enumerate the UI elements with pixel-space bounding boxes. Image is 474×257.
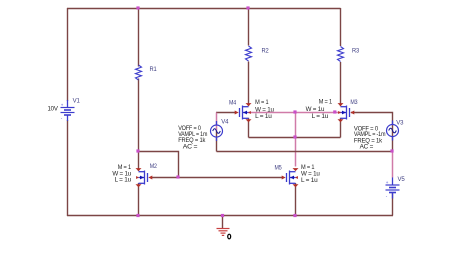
wire bottom rail [67,215,393,217]
params M2 [112,165,131,184]
svg-text:L = 1u: L = 1u [301,178,318,184]
transistor M2 [136,168,153,187]
wire M2 source to rail [138,183,140,216]
svg-text:V3: V3 [396,120,404,126]
svg-text:R1: R1 [150,67,158,73]
resistor R2 [246,46,252,61]
junction source tie tail [293,135,296,138]
wire R2 to M4 drain [248,62,250,107]
wire bulk bus M4-M3 (highlighted) [249,112,341,114]
source V4 [211,121,223,141]
resistor R3 [338,47,344,62]
wire R2 top [248,8,250,46]
svg-text:W = 1u: W = 1u [306,107,325,113]
svg-text:M = 1: M = 1 [301,165,315,171]
wire gate bus M2-M5 [150,177,283,179]
junction gate bus [176,175,179,178]
wire M4 source down [248,118,250,138]
wire R1 to M2 drain [138,79,140,172]
wire M5 source to rail [295,183,297,216]
svg-text:M = 1: M = 1 [118,165,132,171]
wire top rail [67,8,341,10]
svg-text:M2: M2 [150,164,158,170]
svg-text:W = 1u: W = 1u [255,108,274,114]
junction diode tap [136,149,139,152]
svg-text:W = 1u: W = 1u [301,172,320,178]
wire ground stem [222,216,224,229]
wire M2 diode tap [139,152,179,178]
battery V5 [386,177,400,198]
wire source tie row [249,137,341,139]
wire V1 top column [67,8,69,101]
svg-text:L = 1u: L = 1u [115,178,132,184]
transistor M3 [338,103,355,122]
wire V3 to V5 (highlighted) [392,152,394,178]
wire R1 top [138,8,140,67]
transistor M5 [282,168,299,187]
junction top rail R2 [246,6,249,9]
svg-text:R3: R3 [352,49,360,55]
node 0 label [228,234,231,239]
svg-text:10V: 10V [48,107,58,113]
params M3 [306,100,333,120]
ground [217,229,230,236]
svg-text:FREQ = 1k: FREQ = 1k [178,138,206,144]
wire V4 top vertical (highlighted) [216,113,218,132]
svg-text:AC =: AC = [183,145,198,151]
battery V1 [61,100,75,121]
wire source bus V4-V3 [217,151,393,153]
wire V1 bottom column [67,120,69,216]
svg-text:M3: M3 [350,100,358,106]
svg-text:AC =: AC = [360,144,374,150]
wire R3 to M3 drain [340,62,342,106]
svg-text:L = 1u: L = 1u [312,114,329,120]
svg-text:V4: V4 [221,120,229,126]
svg-text:M = 1: M = 1 [319,100,333,106]
wire R3 top [340,8,342,46]
params M4 [255,100,274,120]
wire V3 to M3 gate [351,113,393,152]
wire V5 bottom [392,193,394,216]
junction V3 bottom [390,149,393,152]
svg-text:L = 1u: L = 1u [255,114,272,120]
junction M5 source rail [293,214,296,217]
svg-text:M5: M5 [275,166,283,172]
svg-text:VAMPL = -1m: VAMPL = -1m [354,132,386,138]
resistor R1 [136,65,142,80]
junction bulk bus tail [293,110,296,113]
junction bulk M3 [333,110,336,113]
junction M2 source rail [136,214,139,217]
wire M3 source down [340,118,342,138]
source V3 [387,121,399,141]
svg-text:VAMPL = 1m: VAMPL = 1m [178,132,207,138]
junction top rail R1 [136,6,139,9]
svg-text:M4: M4 [229,100,237,106]
params V3 [354,126,386,150]
transistor M4 [235,103,252,122]
svg-text:V5: V5 [398,177,406,183]
wire V4 bottom vertical [216,131,218,152]
svg-text:V1: V1 [73,99,81,105]
wire V4 to M4 gate [216,112,236,114]
svg-text:R2: R2 [262,49,270,55]
svg-text:W = 1u: W = 1u [112,171,131,177]
wire tail node vertical (highlighted) [295,113,297,167]
params M5 [301,165,320,184]
params V4 [178,126,207,151]
junction ground rail [221,214,224,217]
svg-text:VOFF = 0: VOFF = 0 [178,126,201,132]
svg-text:M = 1: M = 1 [255,100,269,106]
